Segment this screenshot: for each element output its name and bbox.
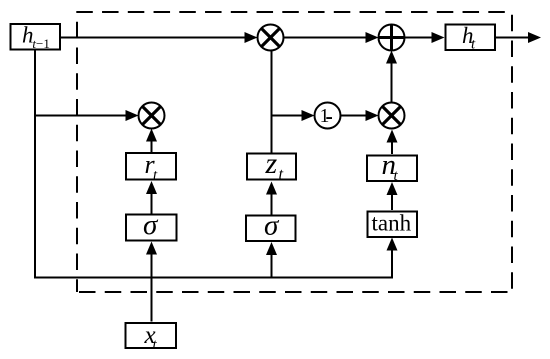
wire z_t up to X1 xyxy=(271,51,273,154)
svg-text:tanh: tanh xyxy=(372,211,412,236)
multiply node X1 (update gate product) xyxy=(258,25,284,51)
wire X1 to adder xyxy=(284,32,379,43)
box z_t xyxy=(247,147,296,183)
adder node (+) xyxy=(379,25,405,51)
box h_t xyxy=(446,23,496,53)
wire h_{t-1} down branch xyxy=(34,51,36,278)
wire n_t to X3 xyxy=(387,130,398,155)
svg-text:t: t xyxy=(279,164,284,183)
output wire h_t xyxy=(496,32,542,43)
wire X3 up to adder xyxy=(386,51,397,103)
wire x_t up to sigma_r xyxy=(146,242,157,322)
svg-text:z: z xyxy=(265,147,278,180)
box r_t xyxy=(126,150,176,184)
wire bus branch to sigma_z xyxy=(266,242,277,278)
wire adder to h_t box xyxy=(405,32,445,43)
wire 1- node to X3 xyxy=(341,110,379,121)
wire z branch to 1- node xyxy=(272,110,315,121)
svg-text:1: 1 xyxy=(320,106,330,127)
svg-text:σ: σ xyxy=(264,209,280,241)
box x_t xyxy=(126,322,177,353)
box sigma (reset gate) xyxy=(126,209,177,241)
node 1- (one minus) xyxy=(315,103,341,129)
wire r_t to X2 xyxy=(146,129,157,153)
box tanh xyxy=(368,211,418,238)
box n_t xyxy=(367,149,417,184)
multiply node X2 (reset gate product) xyxy=(139,103,165,129)
box h_{t-1} xyxy=(11,23,61,51)
multiply node X3 (candidate product) xyxy=(379,103,405,129)
box sigma (update gate) xyxy=(246,209,296,241)
svg-text:t−1: t−1 xyxy=(32,36,49,51)
wire branch to reset product X2 xyxy=(35,110,139,121)
wire tanh to n_t xyxy=(387,182,398,210)
dashed cell boundary xyxy=(76,12,512,292)
wire h_{t-1} to multiply node xyxy=(61,32,258,43)
wire sigma_z to z_t xyxy=(266,182,277,216)
svg-text:σ: σ xyxy=(143,209,159,241)
wire sigma_r to r_t xyxy=(146,181,157,214)
wire bottom bus xyxy=(34,238,398,279)
